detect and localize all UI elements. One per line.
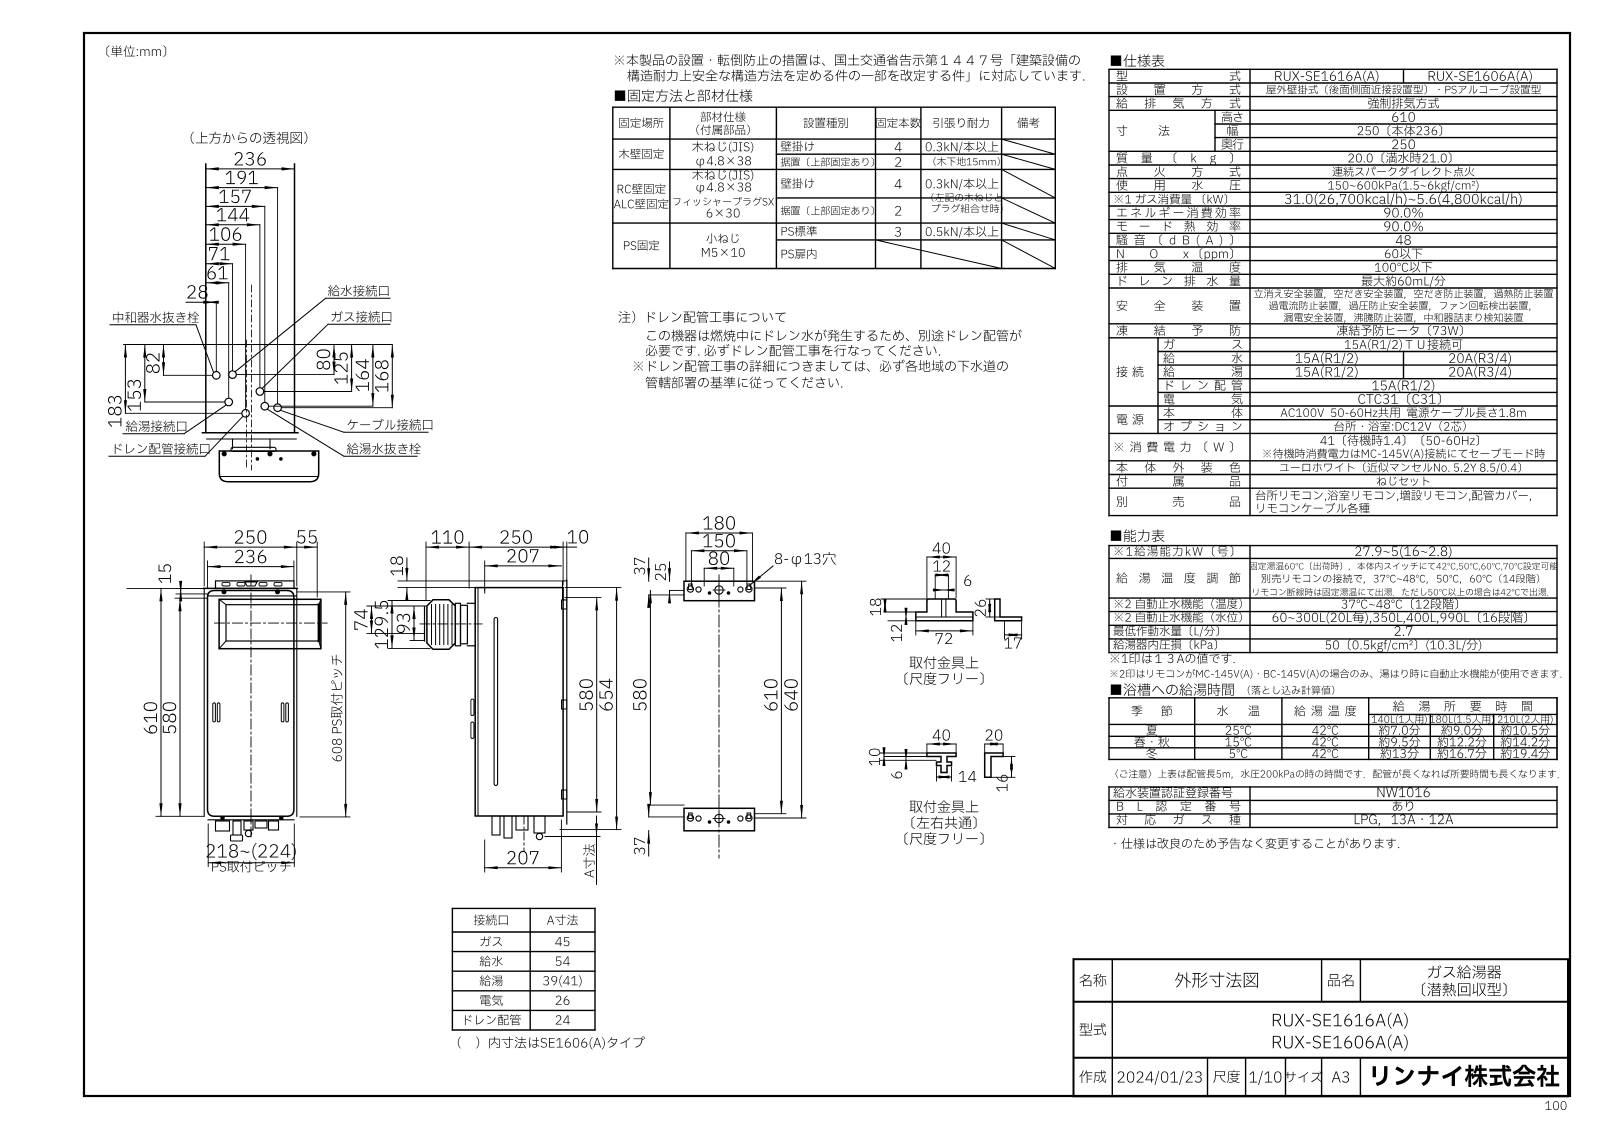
body outline (side) [475,588,563,816]
A dimension table 接続口/A寸法 [451,908,453,1030]
bracket bottom side profile [985,753,1003,777]
top regulation note [615,54,1080,66]
bracket detail top (取付金具上 尺度フリー) [927,556,956,558]
drain piping note [619,311,786,323]
louver slots [213,703,216,722]
left vertical dims 183 153 82 [124,345,126,414]
dim A (side bottom) [545,836,600,838]
dim 15 [180,588,182,594]
rear vertical dims 37/25 [634,558,645,575]
reference line [124,344,393,346]
fixing method table 固定方法と部材仕様 [612,107,614,268]
certification table [1108,787,1110,828]
bath hot-water time table [1111,683,1234,696]
rear bottom dim 37 [634,838,645,855]
side dims 74/129.5/93 [371,606,373,633]
top mounting bracket [216,581,295,589]
title block [1074,959,1569,1096]
left dims 610/580 [160,588,162,816]
vent slot (side) [494,618,498,786]
capacity table 能力表 [1111,529,1165,542]
connection circles [213,372,221,380]
top perspective view [191,132,308,144]
connection labels [113,312,199,323]
body bottom & base (top view) [202,432,298,434]
body outline (top view) [205,164,207,433]
right dim 608 PS pitch [345,592,347,817]
center lines (front) [250,575,252,839]
rear dim 580 [649,590,651,805]
spec table 仕様表 [1111,54,1165,67]
8-dia13 label [775,552,836,567]
horizontal width dimensions [206,168,295,170]
bracket top dims 18/12/26/17/72 [884,599,886,612]
bottom pipes (front) [208,819,294,821]
exhaust fan assembly (side) [427,600,455,650]
center dash-dot lines [246,340,248,470]
bracket bottom dims 10/6/14/16 [883,753,885,760]
diagonal slashes in empty cells [1002,139,1056,154]
rear dims 180/150/80 [686,532,753,534]
body outline (front) [204,587,298,589]
rear hooks [562,600,567,609]
dim 207 bottom [485,867,562,869]
bracket bottom profile [927,753,956,773]
center line (rear) [718,575,720,858]
bracket top profile [916,599,973,621]
dim 218-224 PS pitch [207,824,209,867]
bottom pipes (side) [492,816,500,835]
bracket top side profile [995,599,1022,621]
dim 28 [186,301,216,303]
side dims 580/654 [596,597,598,812]
dim 18 (side) [406,558,408,581]
wall line [566,580,568,824]
top plate [684,581,755,601]
exhaust window (front) [219,599,321,648]
bracket detail bottom (取付金具上 左右共通) [927,743,956,745]
side dims 110/250/10/207 [426,546,469,548]
rear dims 610/640 [780,588,782,814]
right vertical dims 80 125 164 168 [333,345,335,375]
front dims 250/55/236 [204,546,297,548]
bottom plate [684,808,755,831]
